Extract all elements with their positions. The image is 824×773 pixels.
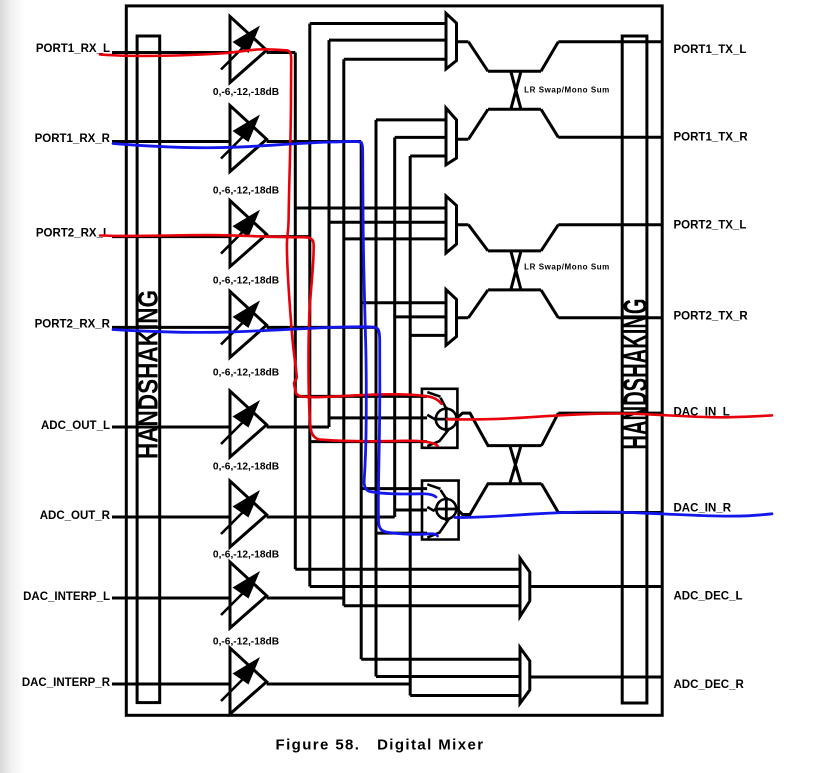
svg-text:PORT1_RX_R: PORT1_RX_R — [35, 133, 111, 145]
svg-text:ADC_OUT_L: ADC_OUT_L — [41, 420, 110, 432]
svg-text:HANDSHAKING: HANDSHAKING — [133, 290, 164, 459]
svg-text:HANDSHAKING: HANDSHAKING — [617, 298, 655, 449]
svg-text:0,-6,-12,-18dB: 0,-6,-12,-18dB — [213, 550, 279, 561]
svg-text:PORT2_TX_L: PORT2_TX_L — [674, 220, 747, 232]
svg-text:0,-6,-12,-18dB: 0,-6,-12,-18dB — [213, 276, 279, 287]
svg-text:0,-6,-12,-18dB: 0,-6,-12,-18dB — [213, 637, 279, 648]
svg-text:PORT1_TX_R: PORT1_TX_R — [674, 132, 749, 144]
svg-text:0,-6,-12,-18dB: 0,-6,-12,-18dB — [213, 368, 279, 379]
svg-text:0,-6,-12,-18dB: 0,-6,-12,-18dB — [213, 87, 279, 98]
svg-text:DAC_INTERP_L: DAC_INTERP_L — [23, 591, 110, 603]
svg-text:ADC_DEC_R: ADC_DEC_R — [674, 679, 745, 691]
svg-text:0,-6,-12,-18dB: 0,-6,-12,-18dB — [213, 186, 279, 197]
svg-text:Figure 58. Digital Mixer: Figure 58. Digital Mixer — [276, 737, 485, 754]
svg-text:ADC_DEC_L: ADC_DEC_L — [674, 591, 743, 603]
svg-text:ADC_OUT_R: ADC_OUT_R — [40, 510, 111, 522]
svg-text:LR Swap/Mono Sum: LR Swap/Mono Sum — [524, 86, 610, 95]
svg-text:0,-6,-12,-18dB: 0,-6,-12,-18dB — [213, 462, 279, 473]
svg-text:LR Swap/Mono Sum: LR Swap/Mono Sum — [524, 263, 610, 272]
svg-text:PORT2_RX_R: PORT2_RX_R — [35, 318, 111, 330]
svg-text:PORT2_TX_R: PORT2_TX_R — [674, 311, 749, 323]
svg-text:PORT1_RX_L: PORT1_RX_L — [36, 43, 110, 55]
svg-text:DAC_IN_R: DAC_IN_R — [674, 503, 732, 515]
svg-text:PORT1_TX_L: PORT1_TX_L — [674, 44, 747, 56]
svg-text:PORT2_RX_L: PORT2_RX_L — [36, 228, 110, 240]
svg-text:DAC_INTERP_R: DAC_INTERP_R — [22, 677, 111, 689]
